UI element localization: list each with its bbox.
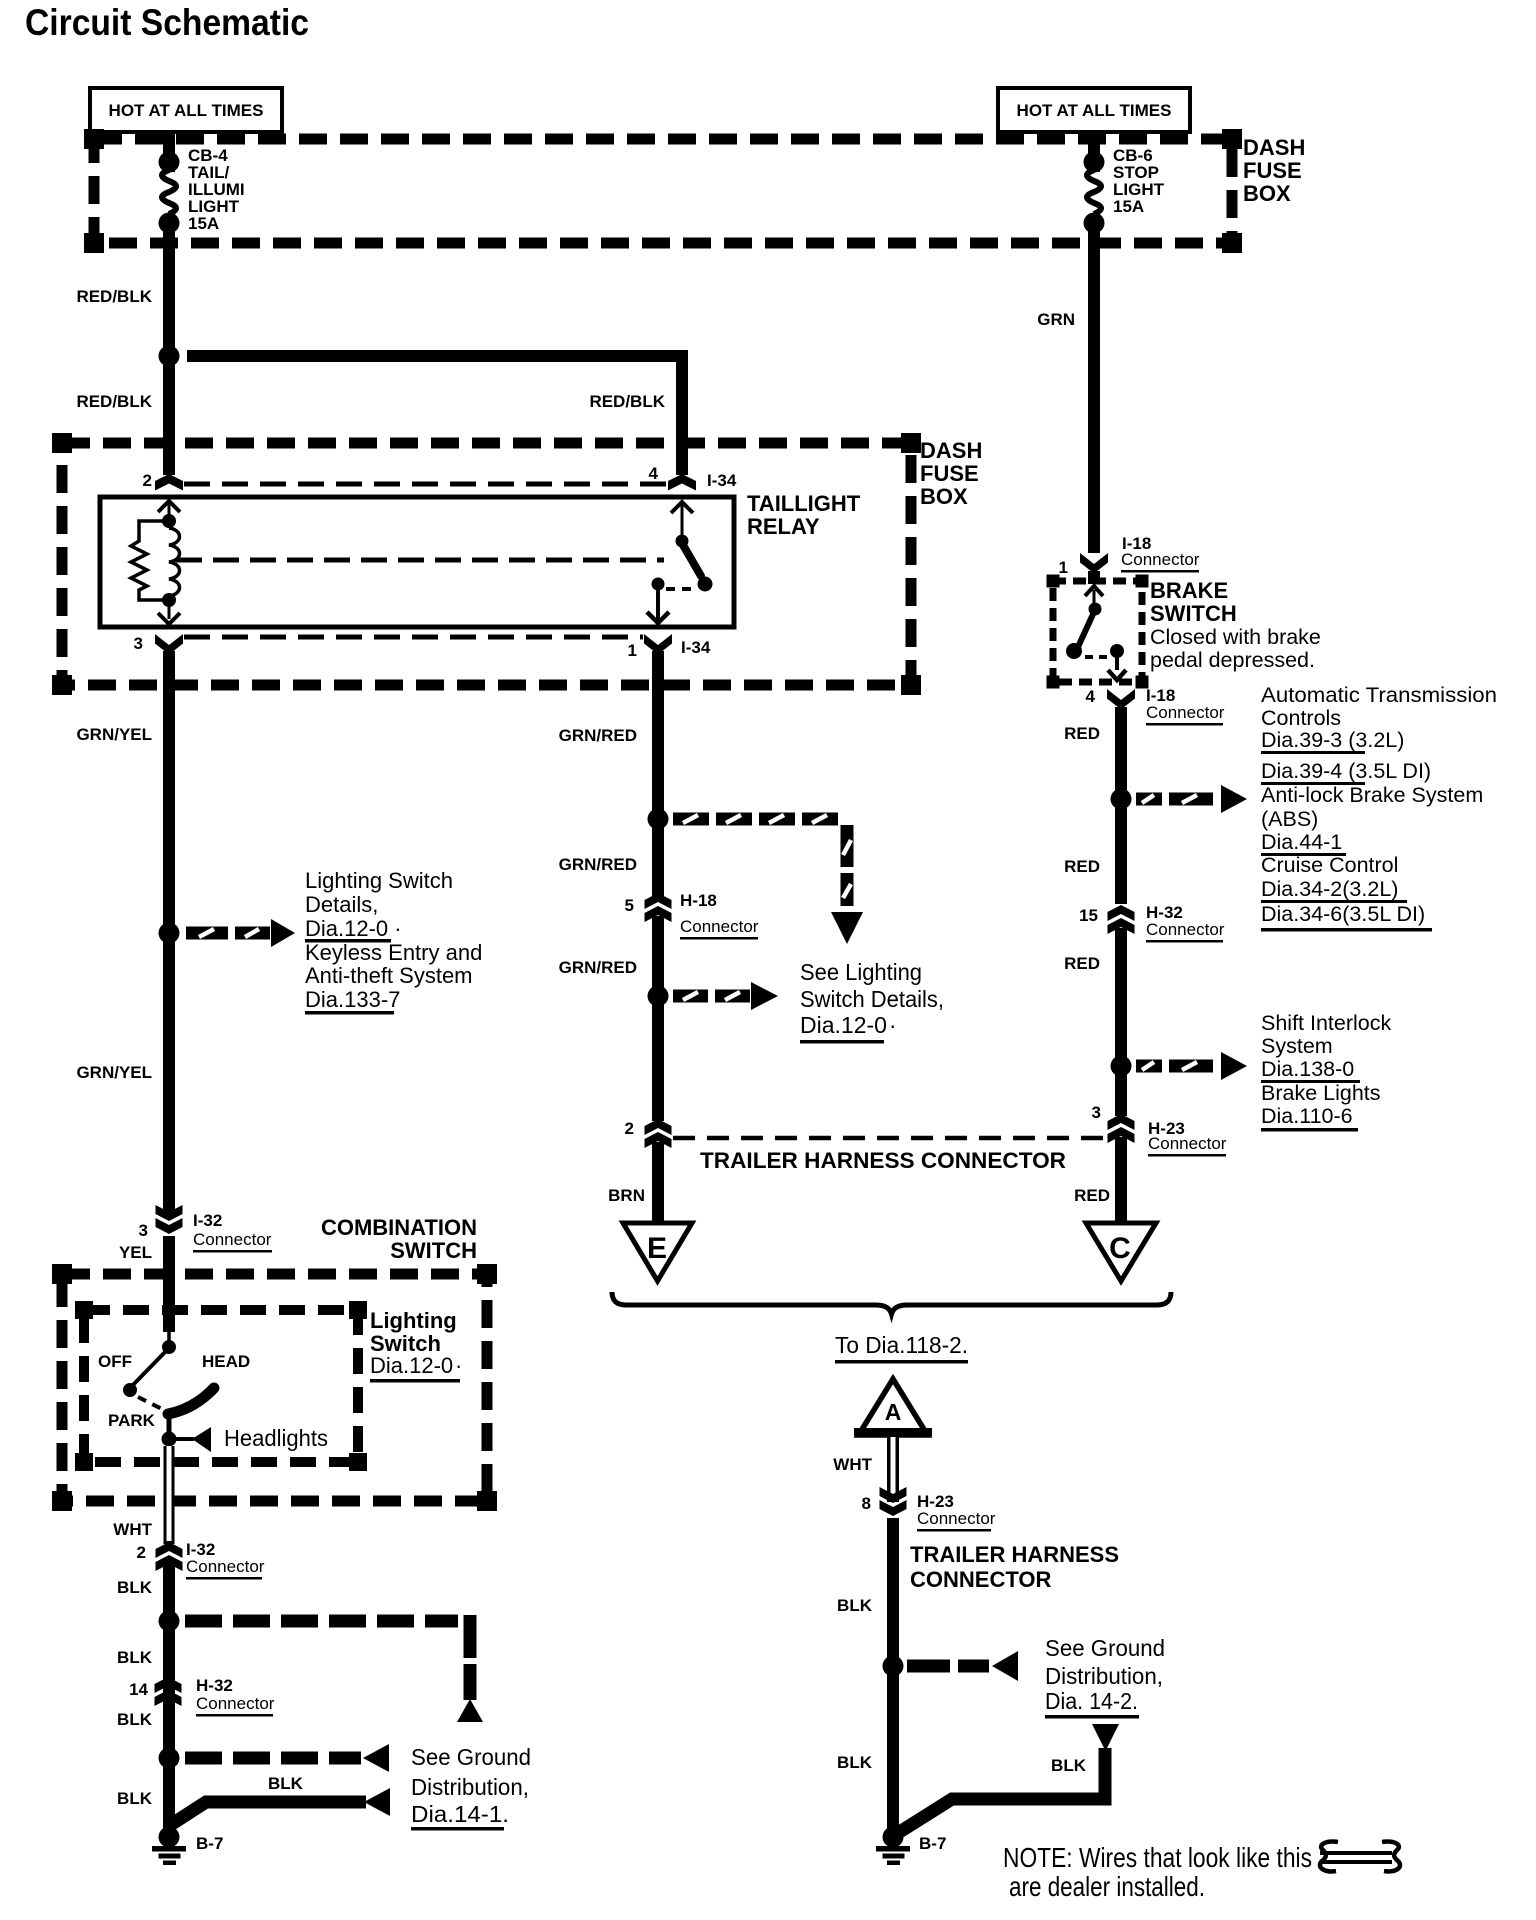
svg-text:3: 3 bbox=[134, 634, 143, 653]
svg-text:System: System bbox=[1261, 1034, 1333, 1058]
node junction on GRN/YEL wire bbox=[159, 923, 180, 944]
svg-text:See Ground: See Ground bbox=[1045, 1635, 1165, 1661]
off-page connector A bbox=[854, 1379, 932, 1435]
connector I-32 (pin 2) bbox=[156, 1542, 183, 1571]
note See Lighting Switch Details bbox=[800, 959, 944, 1044]
connector line I-34 (dashed, bottom) bbox=[184, 635, 643, 640]
svg-text:See Lighting: See Lighting bbox=[800, 959, 922, 985]
dashed branch to ground distribution 14-2 bbox=[907, 1651, 1018, 1681]
connector trailer pin 2 bbox=[645, 1119, 672, 1148]
circuit breaker CB-6 bbox=[1084, 152, 1105, 234]
svg-text:I-34: I-34 bbox=[707, 471, 737, 490]
svg-text:Lighting Switch: Lighting Switch bbox=[305, 868, 453, 893]
relay switch dashed contact link bbox=[666, 587, 698, 591]
node junction GRN/RED lower bbox=[648, 986, 669, 1007]
connector H-32 (pin 15) bbox=[1108, 905, 1135, 934]
svg-text:BOX: BOX bbox=[1243, 181, 1291, 206]
relay switch fixed contact node bbox=[652, 578, 665, 591]
svg-text:H-18: H-18 bbox=[680, 891, 717, 910]
svg-text:H-32: H-32 bbox=[196, 1676, 233, 1695]
connector H-23 label (pin 8) bbox=[917, 1492, 996, 1532]
svg-text:pedal depressed.: pedal depressed. bbox=[1150, 648, 1315, 672]
wire stub into brake switch bbox=[1088, 571, 1100, 584]
svg-text:15A: 15A bbox=[188, 214, 219, 233]
headlights tap arrow bbox=[172, 1427, 211, 1452]
lighting switch box (dashed) bbox=[84, 1310, 358, 1462]
relay switch moving contact node bbox=[698, 577, 713, 592]
svg-text:Dia.39-3 (3.2L): Dia.39-3 (3.2L) bbox=[1261, 728, 1404, 752]
svg-text:Dia.12-0 ·: Dia.12-0 · bbox=[370, 1353, 462, 1378]
dealer installed wire symbol bbox=[1320, 1842, 1400, 1872]
ground B-7 (left) bbox=[152, 1827, 186, 1866]
node junction BLK lower bbox=[159, 1748, 180, 1769]
lighting switch HEAD arc bbox=[168, 1388, 214, 1414]
connector I-32 (pin 3) bbox=[156, 1205, 183, 1234]
svg-text:HOT AT ALL TIMES: HOT AT ALL TIMES bbox=[109, 101, 264, 120]
svg-text:Dia.133-7: Dia.133-7 bbox=[305, 987, 400, 1012]
connector H-23 (pin 3) bbox=[1108, 1114, 1135, 1143]
lighting switch OFF contact node bbox=[123, 1383, 137, 1397]
label TRAILER HARNESS CONNECTOR (bottom) bbox=[910, 1542, 1119, 1592]
svg-text:Dia.12-0 ·: Dia.12-0 · bbox=[305, 916, 402, 941]
wire RED/BLK from CB-4 down to relay terminal 2 bbox=[163, 216, 175, 475]
svg-text:8: 8 bbox=[862, 1494, 871, 1513]
svg-text:RED: RED bbox=[1064, 954, 1100, 973]
svg-text:Details,: Details, bbox=[305, 892, 378, 917]
svg-text:OFF: OFF bbox=[98, 1352, 132, 1371]
svg-text:BRAKE: BRAKE bbox=[1150, 578, 1228, 603]
svg-text:Connector: Connector bbox=[680, 917, 759, 936]
wire RED from brake switch down bbox=[1115, 707, 1127, 904]
svg-text:TRAILER HARNESS CONNECTOR: TRAILER HARNESS CONNECTOR bbox=[700, 1148, 1066, 1173]
svg-text:BLK: BLK bbox=[117, 1578, 153, 1597]
relay coil winding bbox=[169, 528, 180, 596]
svg-text:Brake Lights: Brake Lights bbox=[1261, 1081, 1381, 1105]
svg-text:15A: 15A bbox=[1113, 197, 1144, 216]
connector H-18 label bbox=[680, 891, 759, 940]
svg-text:Anti-lock Brake System: Anti-lock Brake System bbox=[1261, 783, 1483, 807]
svg-text:are dealer installed.: are dealer installed. bbox=[1009, 1871, 1205, 1902]
connector I-32 label (pin 2) bbox=[186, 1540, 265, 1580]
svg-text:Dia.44-1: Dia.44-1 bbox=[1261, 830, 1342, 854]
svg-text:Dia.34-6(3.5L DI): Dia.34-6(3.5L DI) bbox=[1261, 902, 1425, 926]
svg-text:BLK: BLK bbox=[268, 1774, 304, 1793]
svg-text:GRN/YEL: GRN/YEL bbox=[76, 1063, 152, 1082]
svg-text:RED: RED bbox=[1064, 724, 1100, 743]
svg-text:(ABS): (ABS) bbox=[1261, 807, 1318, 831]
dashed reference arrow down to lighting switch details bbox=[673, 813, 863, 945]
dashed reference arrow to ABS bbox=[1136, 785, 1247, 813]
off-page connector C bbox=[1086, 1223, 1156, 1281]
svg-text:TRAILER HARNESS: TRAILER HARNESS bbox=[910, 1542, 1119, 1567]
node coil bottom bbox=[162, 593, 176, 607]
label TAILLIGHT RELAY bbox=[747, 491, 861, 539]
svg-text:Headlights: Headlights bbox=[224, 1425, 328, 1451]
svg-text:GRN/RED: GRN/RED bbox=[559, 855, 637, 874]
brake switch dashed contact link bbox=[1085, 655, 1107, 659]
relay coil arrow (pin 2 side, up) bbox=[158, 501, 180, 517]
svg-text:14: 14 bbox=[129, 1680, 148, 1699]
svg-text:BLK: BLK bbox=[117, 1789, 153, 1808]
node junction BLK (trailer) bbox=[883, 1656, 904, 1677]
lighting switch arm (to OFF) bbox=[131, 1350, 167, 1387]
lighting switch pole stem bbox=[167, 1330, 171, 1345]
svg-text:Cruise Control: Cruise Control bbox=[1261, 853, 1398, 877]
svg-text:4: 4 bbox=[1086, 687, 1096, 706]
connector H-32 label (pin 14) bbox=[196, 1676, 275, 1717]
svg-text:Connector: Connector bbox=[1146, 920, 1225, 939]
svg-text:FUSE: FUSE bbox=[920, 461, 979, 486]
CB-6 value label bbox=[1113, 146, 1165, 216]
connector I-18 label (pin 4) bbox=[1146, 686, 1225, 726]
connector H-23 (pin 8) bbox=[880, 1487, 907, 1516]
svg-text:DASH: DASH bbox=[1243, 135, 1305, 160]
wire GRN/RED from relay pin 1 down bbox=[652, 651, 664, 896]
wire WHT double line (trailer) bbox=[887, 1437, 899, 1502]
svg-text:FUSE: FUSE bbox=[1243, 158, 1302, 183]
brake switch arm bbox=[1078, 612, 1094, 647]
dash fuse box 2 (dashed outline around relay) bbox=[62, 443, 911, 685]
dashed reference arrow to lighting switch details bbox=[186, 919, 295, 947]
svg-text:WHT: WHT bbox=[833, 1455, 872, 1474]
svg-text:HOT AT ALL TIMES: HOT AT ALL TIMES bbox=[1017, 101, 1172, 120]
svg-text:Dia.12-0 ·: Dia.12-0 · bbox=[800, 1012, 897, 1038]
wire BRN to triangle E bbox=[652, 1142, 664, 1224]
svg-text:2: 2 bbox=[143, 471, 152, 490]
dashed link OFF to PARK arc bbox=[138, 1397, 162, 1409]
relay switch arrow (pin 1 side, down) bbox=[647, 589, 669, 623]
wire arc to park node bbox=[167, 1412, 172, 1438]
svg-text:Connector: Connector bbox=[1148, 1134, 1227, 1153]
svg-text:Dia.39-4 (3.5L DI): Dia.39-4 (3.5L DI) bbox=[1261, 759, 1431, 783]
svg-text:WHT: WHT bbox=[113, 1520, 152, 1539]
connector terminal 4 bbox=[668, 474, 696, 491]
dash fuse box 1 (dashed outline) bbox=[94, 139, 1232, 243]
svg-text:RED/BLK: RED/BLK bbox=[76, 287, 152, 306]
lighting switch PARK node bbox=[162, 1432, 177, 1447]
svg-text:GRN/RED: GRN/RED bbox=[559, 726, 637, 745]
svg-text:Dia.14-1.: Dia.14-1. bbox=[411, 1801, 509, 1827]
svg-text:C: C bbox=[1109, 1232, 1131, 1265]
svg-text:Dia.34-2(3.2L): Dia.34-2(3.2L) bbox=[1261, 877, 1398, 901]
svg-text:YEL: YEL bbox=[119, 1243, 152, 1262]
svg-text:A: A bbox=[885, 1399, 902, 1425]
svg-text:B-7: B-7 bbox=[196, 1834, 223, 1853]
svg-text:Connector: Connector bbox=[186, 1557, 265, 1576]
svg-text:BLK: BLK bbox=[837, 1596, 873, 1615]
connector H-18 bbox=[645, 893, 672, 922]
brace under E and C bbox=[612, 1292, 1171, 1314]
label COMBINATION SWITCH bbox=[321, 1215, 477, 1263]
wire GRN/YEL from relay pin 3 down to combination switch bbox=[163, 651, 175, 1212]
svg-text:To Dia.118-2.: To Dia.118-2. bbox=[835, 1332, 968, 1358]
svg-text:BRN: BRN bbox=[608, 1186, 645, 1205]
svg-text:Distribution,: Distribution, bbox=[1045, 1663, 1163, 1689]
relay switch pivot node bbox=[676, 535, 689, 548]
svg-text:HEAD: HEAD bbox=[202, 1352, 250, 1371]
svg-text:Dia.110-6: Dia.110-6 bbox=[1261, 1104, 1353, 1128]
svg-text:TAILLIGHT: TAILLIGHT bbox=[747, 491, 861, 516]
svg-text:GRN/RED: GRN/RED bbox=[559, 958, 637, 977]
note NOTE dealer installed bbox=[1003, 1842, 1312, 1902]
connector terminal 2 bbox=[155, 474, 183, 491]
svg-text:1: 1 bbox=[628, 641, 637, 660]
relay switch arrow (pin 4 side, up) bbox=[671, 502, 693, 538]
svg-text:RED/BLK: RED/BLK bbox=[589, 392, 665, 411]
svg-text:3: 3 bbox=[139, 1221, 148, 1240]
brake switch moving contact node bbox=[1066, 643, 1082, 659]
svg-text:Connector: Connector bbox=[1121, 550, 1200, 569]
dealer installed wire to ground bbox=[898, 1748, 1105, 1833]
lighting switch pole node bbox=[162, 1340, 176, 1354]
label DASH FUSE BOX (top right) bbox=[1243, 135, 1305, 206]
svg-text:RED/BLK: RED/BLK bbox=[76, 392, 152, 411]
svg-text:SWITCH: SWITCH bbox=[390, 1238, 477, 1263]
svg-text:2: 2 bbox=[625, 1119, 634, 1138]
svg-text:Connector: Connector bbox=[193, 1230, 272, 1249]
solid branch BLK to ground distribution bbox=[172, 1802, 366, 1824]
svg-text:2: 2 bbox=[137, 1543, 146, 1562]
svg-text:1: 1 bbox=[1059, 558, 1068, 577]
svg-text:GRN: GRN bbox=[1037, 310, 1075, 329]
note Lighting Switch Details reference bbox=[305, 868, 482, 1015]
svg-text:E: E bbox=[647, 1232, 667, 1265]
label Lighting Switch Dia.12-0 bbox=[370, 1308, 462, 1383]
connector terminal 3 bbox=[155, 634, 183, 655]
HOT AT ALL TIMES box (left) bbox=[90, 88, 282, 132]
note See Ground Distribution Dia.14-1 bbox=[411, 1744, 531, 1831]
connector H-32 label (pin 15) bbox=[1146, 903, 1225, 943]
svg-text:BLK: BLK bbox=[837, 1753, 873, 1772]
svg-text:Anti-theft System: Anti-theft System bbox=[305, 963, 473, 988]
node junction GRN/RED upper bbox=[648, 809, 669, 830]
node junction RED upper bbox=[1111, 789, 1132, 810]
svg-text:15: 15 bbox=[1079, 906, 1098, 925]
relay actuation dashed link bbox=[176, 558, 664, 563]
svg-text:5: 5 bbox=[625, 896, 634, 915]
dashed stub branch to other ground circuit bbox=[185, 1615, 483, 1723]
resistor (relay coil shunt) bbox=[131, 521, 169, 600]
svg-text:DASH: DASH bbox=[920, 438, 982, 463]
node coil top bbox=[162, 514, 176, 528]
circuit breaker CB-4 bbox=[159, 152, 180, 234]
wire branch RED/BLK to relay terminal 4 bbox=[187, 350, 688, 475]
brake switch pivot node bbox=[1089, 603, 1102, 616]
svg-text:Controls: Controls bbox=[1261, 706, 1341, 730]
svg-text:GRN/YEL: GRN/YEL bbox=[76, 725, 152, 744]
node junction on RED/BLK wire bbox=[159, 346, 180, 367]
relay switch arm bbox=[683, 545, 701, 576]
svg-text:BLK: BLK bbox=[117, 1648, 153, 1667]
connector I-18 (pin 4) bbox=[1107, 689, 1135, 710]
svg-text:Connector: Connector bbox=[917, 1509, 996, 1528]
svg-text:4: 4 bbox=[649, 464, 659, 483]
svg-text:RED: RED bbox=[1064, 857, 1100, 876]
connector line trailer harness (dashed) bbox=[673, 1136, 1108, 1141]
brake switch fixed contact node bbox=[1110, 644, 1124, 658]
svg-text:RELAY: RELAY bbox=[747, 514, 820, 539]
svg-text:BOX: BOX bbox=[920, 484, 968, 509]
label BRAKE SWITCH bbox=[1150, 578, 1321, 672]
wire BLK down to ground bbox=[163, 1564, 175, 1828]
svg-text:B-7: B-7 bbox=[919, 1834, 946, 1853]
svg-text:SWITCH: SWITCH bbox=[1150, 601, 1237, 626]
svg-text:I-32: I-32 bbox=[193, 1211, 222, 1230]
note Shift Interlock System block bbox=[1261, 1011, 1391, 1132]
dealer installed branch arrow (down) bbox=[1092, 1724, 1119, 1751]
wire RED to triangle C bbox=[1115, 1137, 1127, 1224]
connector I-32 label (pin 3) bbox=[193, 1211, 272, 1253]
brake switch arrow (up) bbox=[1085, 586, 1103, 607]
off-page connector E bbox=[623, 1223, 692, 1281]
svg-text:3: 3 bbox=[1092, 1103, 1101, 1122]
wire YEL into lighting switch bbox=[163, 1236, 175, 1332]
relay coil arrow (pin 3 side, down) bbox=[158, 600, 180, 624]
svg-text:Circuit Schematic: Circuit Schematic bbox=[25, 2, 309, 43]
svg-text:Lighting: Lighting bbox=[370, 1308, 457, 1333]
dashed branch to ground distribution bbox=[185, 1744, 389, 1772]
connector I-18 label (pin 1) bbox=[1121, 534, 1200, 573]
node junction BLK upper bbox=[159, 1611, 180, 1632]
wire from right HOT box into fuse box bbox=[1088, 134, 1100, 172]
svg-text:See Ground: See Ground bbox=[411, 1744, 531, 1770]
svg-text:Keyless Entry and: Keyless Entry and bbox=[305, 940, 482, 965]
wire GRN from CB-6 down to brake switch bbox=[1088, 216, 1100, 553]
svg-text:NOTE: Wires that look like th: NOTE: Wires that look like this bbox=[1003, 1842, 1312, 1873]
brake switch box (dashed) bbox=[1053, 581, 1142, 682]
svg-text:Dia.138-0: Dia.138-0 bbox=[1261, 1057, 1354, 1081]
svg-text:I-34: I-34 bbox=[681, 638, 711, 657]
wire BLK from H-23 down to ground bbox=[887, 1518, 899, 1828]
dashed reference arrow to shift interlock bbox=[1136, 1052, 1247, 1080]
wire WHT (double line) from lighting switch down bbox=[164, 1446, 175, 1544]
combination switch box (dashed) bbox=[62, 1274, 487, 1501]
dashed box corner patches bbox=[52, 129, 1242, 1511]
wire from left HOT box into fuse box bbox=[163, 134, 175, 172]
svg-text:Connector: Connector bbox=[196, 1694, 275, 1713]
svg-text:RED: RED bbox=[1074, 1186, 1110, 1205]
HOT AT ALL TIMES box (right) bbox=[998, 88, 1190, 132]
ground B-7 (trailer) bbox=[876, 1827, 910, 1866]
svg-text:Connector: Connector bbox=[1146, 703, 1225, 722]
taillight relay box bbox=[100, 497, 734, 627]
svg-text:COMBINATION: COMBINATION bbox=[321, 1215, 477, 1240]
svg-text:BLK: BLK bbox=[1051, 1756, 1087, 1775]
svg-text:Closed with brake: Closed with brake bbox=[1150, 625, 1321, 649]
label DASH FUSE BOX (middle right) bbox=[920, 438, 982, 509]
wire RED below H-32 bbox=[1115, 928, 1127, 1116]
connector I-18 (pin 1) bbox=[1080, 553, 1108, 574]
note See Ground Distribution Dia.14-2 bbox=[1045, 1635, 1165, 1719]
connector terminal 1 bbox=[644, 634, 672, 655]
svg-text:Distribution,: Distribution, bbox=[411, 1774, 529, 1800]
connector line I-34 (dashed, top) bbox=[184, 482, 668, 487]
wire GRN/RED below H-18 bbox=[652, 916, 664, 1121]
connector H-32 (pin 14) bbox=[155, 1677, 182, 1706]
svg-text:BLK: BLK bbox=[117, 1710, 153, 1729]
svg-text:CONNECTOR: CONNECTOR bbox=[910, 1567, 1051, 1592]
connector H-23 label (pin 3) bbox=[1148, 1119, 1227, 1157]
svg-text:PARK: PARK bbox=[108, 1411, 156, 1430]
svg-text:Automatic Transmission: Automatic Transmission bbox=[1261, 683, 1497, 707]
svg-text:Shift Interlock: Shift Interlock bbox=[1261, 1011, 1391, 1035]
note To Dia.118-2 bbox=[835, 1332, 968, 1364]
dashed reference arrow right to lighting switch details bbox=[673, 982, 778, 1010]
CB-4 value label bbox=[188, 146, 245, 233]
note Automatic Transmission Controls block bbox=[1261, 683, 1497, 932]
svg-text:Dia. 14-2.: Dia. 14-2. bbox=[1045, 1688, 1138, 1714]
node junction RED lower bbox=[1111, 1056, 1132, 1077]
brake switch arrow (down) bbox=[1108, 655, 1126, 680]
arrowhead on solid branch bbox=[364, 1788, 390, 1816]
svg-text:Switch Details,: Switch Details, bbox=[800, 986, 944, 1012]
